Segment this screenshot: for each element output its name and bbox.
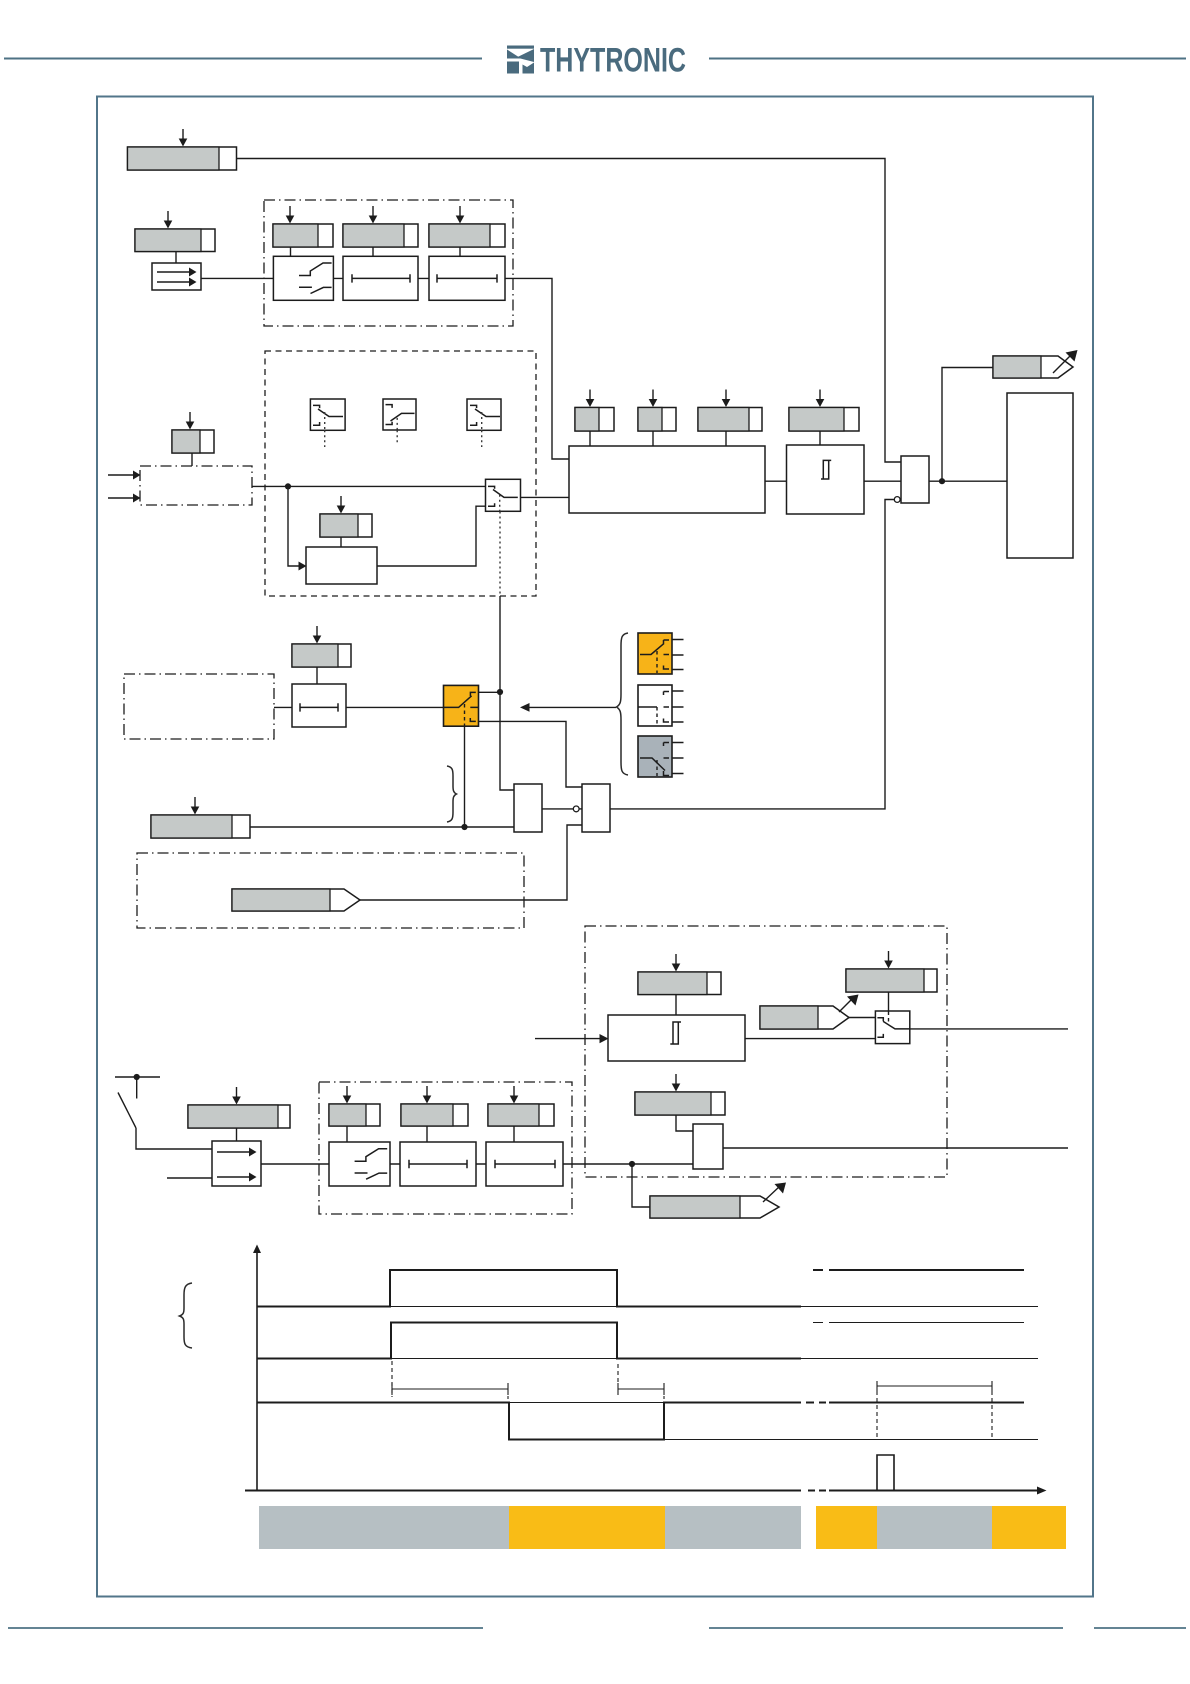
svg-text:THYTRONIC: THYTRONIC bbox=[540, 42, 686, 80]
